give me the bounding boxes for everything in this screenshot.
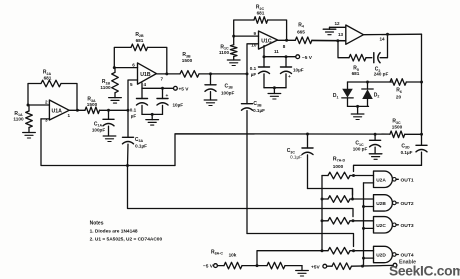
resistor R1A [13, 105, 32, 133]
node U1B output [165, 72, 168, 75]
op-amp U1A [45, 99, 71, 122]
nand U2C [374, 217, 414, 233]
wire U1D output [364, 33, 422, 36]
svg-text:2: 2 [45, 99, 48, 104]
svg-text:OUT3: OUT3 [401, 223, 414, 229]
wire pin3 U1A [41, 118, 49, 120]
node U2B in2 [362, 205, 365, 208]
resistor R4 [295, 22, 346, 43]
svg-text:100pF: 100pF [92, 127, 105, 132]
node R7C out [352, 219, 355, 222]
watermark [389, 264, 460, 279]
node pin9 U1C [232, 35, 235, 38]
capacitor 0.1uF U1C [250, 57, 270, 88]
wire U1B output [156, 73, 180, 75]
wire pin2 U1A [28, 104, 49, 106]
svg-text:U1B: U1B [140, 72, 151, 78]
resistor R8 [224, 262, 267, 269]
capacitor C1B [205, 74, 234, 100]
svg-text:U2A: U2A [376, 178, 386, 184]
node C1B [209, 72, 212, 75]
svg-text:9: 9 [254, 31, 257, 36]
svg-text:10µF: 10µF [173, 103, 184, 108]
node U1A output [76, 109, 79, 112]
node pin6 U1B [113, 66, 116, 69]
capacitor C3D [401, 134, 427, 165]
wire bias bus [321, 176, 323, 251]
svg-text:5: 5 [130, 82, 133, 87]
resistor enable pullup [332, 263, 393, 270]
svg-text:100 pF: 100 pF [353, 146, 368, 151]
wire R7B up [352, 189, 354, 200]
diode clamp rail [348, 81, 393, 83]
resistor R2B [114, 32, 167, 74]
wire pin12 U1D [330, 27, 346, 29]
svg-text:+: + [166, 94, 169, 99]
svg-text:D1: D1 [333, 93, 339, 99]
node pin2 U1A [27, 104, 30, 107]
svg-text:0.1µF: 0.1µF [135, 143, 147, 148]
resistor R2C [234, 5, 287, 41]
svg-text:681: 681 [136, 38, 144, 43]
resistor R1C [219, 36, 237, 60]
diode bottom rail [348, 105, 369, 107]
node C3B top [246, 72, 249, 75]
node R3C bus [420, 133, 423, 136]
svg-text:240 pF: 240 pF [374, 71, 389, 76]
wire bias up [257, 251, 322, 266]
node C3A tap [126, 164, 129, 167]
svg-text:C3D: C3D [401, 143, 410, 149]
svg-text:681: 681 [352, 71, 360, 76]
svg-text:7: 7 [161, 76, 164, 81]
op-amp U1C [251, 31, 285, 54]
wire U2D in2 [364, 255, 399, 259]
resistor R7C [322, 218, 374, 225]
node R6 bus [420, 81, 423, 84]
ground R1C [227, 60, 240, 66]
node U1D output [386, 33, 389, 36]
resistor R7A [322, 156, 374, 179]
svg-text:C1B: C1B [225, 83, 234, 89]
svg-text:665: 665 [297, 30, 305, 35]
node 10uF U1B [161, 87, 164, 90]
resistor R2A [28, 70, 77, 111]
nand U2D [374, 246, 414, 262]
svg-text:1: 1 [68, 113, 71, 118]
resistor R6 [390, 79, 422, 100]
wire U2C in2 [364, 225, 399, 229]
wire pin13 U1D [312, 40, 346, 42]
capacitor C3A [123, 110, 148, 165]
svg-text:14: 14 [380, 36, 386, 41]
wire C3C feed [308, 189, 353, 196]
capacitor C1C [353, 134, 381, 154]
ground diodes [351, 106, 364, 119]
svg-text:100pF: 100pF [221, 90, 234, 95]
wire row A feed [354, 165, 422, 171]
pin4 +5V rail [142, 82, 189, 93]
op-amp U1B [132, 63, 163, 85]
svg-text:2. U1 = 5A5025, U2 = CD74AC00: 2. U1 = 5A5025, U2 = CD74AC00 [90, 236, 163, 242]
nand U2A [374, 171, 414, 187]
svg-text:U2B: U2B [376, 201, 386, 207]
node D2 rail [366, 81, 369, 84]
wire cap bottoms U1C [264, 87, 286, 89]
capacitor 0.1uF U1B [130, 88, 148, 118]
svg-text:8: 8 [283, 44, 286, 49]
wire C3B feed [247, 234, 354, 247]
ground U1B caps [146, 114, 159, 125]
wire enable bus [363, 183, 365, 266]
node R7D left [321, 249, 324, 252]
svg-text:C3B: C3B [253, 101, 262, 107]
ground C1A [103, 136, 116, 142]
node enable [361, 265, 364, 268]
svg-text:OUT4: OUT4 [401, 253, 414, 259]
svg-text:20: 20 [396, 95, 402, 100]
svg-text:0.1µF: 0.1µF [290, 155, 302, 160]
svg-text:SeekIC.com: SeekIC.com [389, 264, 460, 279]
svg-text:−5 V: −5 V [203, 264, 214, 270]
nand U2B [374, 195, 414, 211]
resistor R7B [322, 196, 374, 203]
ground R1A [23, 133, 36, 139]
wire mid bus [41, 119, 390, 166]
node C1A [107, 109, 110, 112]
wire pin6 U1B [114, 67, 137, 69]
node C3C tap [306, 133, 309, 136]
wire U1C output [278, 39, 296, 41]
terminal Enable [393, 260, 416, 268]
svg-text:OUT2: OUT2 [401, 201, 414, 207]
node R7A out [352, 174, 355, 177]
svg-text:D2: D2 [374, 92, 380, 98]
ground C1B [204, 100, 217, 106]
svg-text:1. Diodes are 1N4148: 1. Diodes are 1N4148 [90, 228, 138, 234]
svg-text:13: 13 [338, 32, 344, 37]
node R7B out [351, 198, 354, 201]
svg-text:U2C: U2C [376, 223, 386, 229]
svg-text:0.1µF: 0.1µF [253, 108, 265, 113]
node ground U1B [151, 113, 154, 116]
terminal +5V bottom [311, 264, 332, 270]
resistor R3A [85, 97, 128, 114]
svg-text:R6: R6 [396, 88, 402, 94]
ground C1C [369, 154, 382, 160]
resistor R3C [390, 119, 422, 138]
svg-text:10µF: 10µF [293, 67, 304, 72]
ground bias [296, 266, 309, 276]
resistor R1B [100, 68, 118, 98]
svg-text:1100: 1100 [13, 117, 24, 122]
node C1C tap [374, 133, 377, 136]
resistor R3B [180, 52, 247, 77]
svg-text:U1C: U1C [261, 38, 272, 44]
svg-text:11: 11 [274, 49, 279, 54]
svg-text:12: 12 [335, 21, 341, 26]
diode D1 [333, 82, 353, 106]
wire C3A down [128, 166, 354, 217]
svg-text:µF: µF [131, 114, 137, 119]
svg-text:1100: 1100 [100, 85, 111, 90]
pin11 -5V rail [264, 46, 313, 61]
svg-text:µF: µF [251, 72, 257, 77]
diode D2 [362, 82, 380, 106]
svg-text:+5V: +5V [311, 264, 320, 270]
node pin5 drop [127, 109, 130, 112]
wire U2A in2 [364, 179, 399, 183]
node pin13 [336, 39, 339, 42]
svg-text:U2D: U2D [376, 253, 386, 259]
node U2C in2 [362, 227, 365, 230]
node 10uF U1C [285, 55, 288, 58]
notes text [90, 221, 163, 243]
node R7B left [321, 198, 324, 201]
wire pin10 U1C [247, 44, 259, 74]
svg-text:R7A-D: R7A-D [333, 156, 346, 162]
node R8 out [256, 264, 259, 267]
svg-text:−5 V: −5 V [302, 55, 313, 61]
wire pin9 U1C [234, 35, 259, 37]
resistor R7D [322, 247, 374, 254]
svg-text:U1A: U1A [52, 109, 63, 115]
svg-text:681: 681 [257, 10, 265, 15]
svg-text:681: 681 [44, 75, 52, 80]
wire U2B in2 [364, 203, 399, 207]
op-amp U1D [335, 21, 386, 44]
feedback R5 C2 [338, 34, 388, 76]
svg-text:+5 V: +5 V [179, 87, 190, 93]
wire pin5 U1B [128, 80, 138, 110]
capacitor 10uF U1B [157, 88, 183, 114]
capacitor C3C [287, 134, 313, 189]
node 0.1uF U1C [263, 55, 266, 58]
node U2D in2 [362, 257, 365, 260]
svg-text:R8A-C: R8A-C [211, 249, 223, 255]
svg-text:OUT1: OUT1 [401, 177, 414, 183]
capacitor C1A [92, 110, 114, 136]
terminal -5V bottom [203, 249, 237, 269]
svg-text:C3A: C3A [135, 137, 144, 143]
ground pin12 [323, 29, 336, 35]
resistor bias2 [267, 262, 302, 269]
node R7C left [321, 219, 324, 222]
ground U1C caps [268, 88, 281, 99]
wire right bus mid [421, 82, 423, 134]
svg-text:1500: 1500 [392, 124, 403, 129]
svg-text:1500: 1500 [182, 58, 193, 63]
wire cap bottoms U1B [142, 113, 163, 115]
svg-text:R4: R4 [298, 22, 304, 28]
svg-text:1500: 1500 [87, 102, 98, 107]
node ground U1C [273, 86, 276, 89]
capacitor 10uF U1C [281, 57, 304, 88]
svg-text:4: 4 [144, 82, 147, 87]
node diode ground [356, 105, 359, 108]
node U1C output [285, 39, 288, 42]
svg-text:C3C: C3C [287, 148, 296, 154]
wire right bus upper [421, 34, 423, 82]
svg-text:0.1µF: 0.1µF [401, 150, 413, 155]
svg-text:+: + [288, 75, 291, 80]
svg-text:Notes: Notes [90, 221, 104, 227]
node R7D out [352, 249, 355, 252]
wire U1A output [69, 109, 85, 111]
svg-text:0.1: 0.1 [130, 108, 137, 113]
svg-text:0.1: 0.1 [250, 66, 257, 71]
svg-text:1100: 1100 [219, 50, 230, 55]
capacitor C3B [242, 74, 266, 234]
svg-text:10k: 10k [229, 253, 237, 258]
ground R1B [109, 98, 122, 104]
svg-text:1000: 1000 [333, 164, 344, 169]
